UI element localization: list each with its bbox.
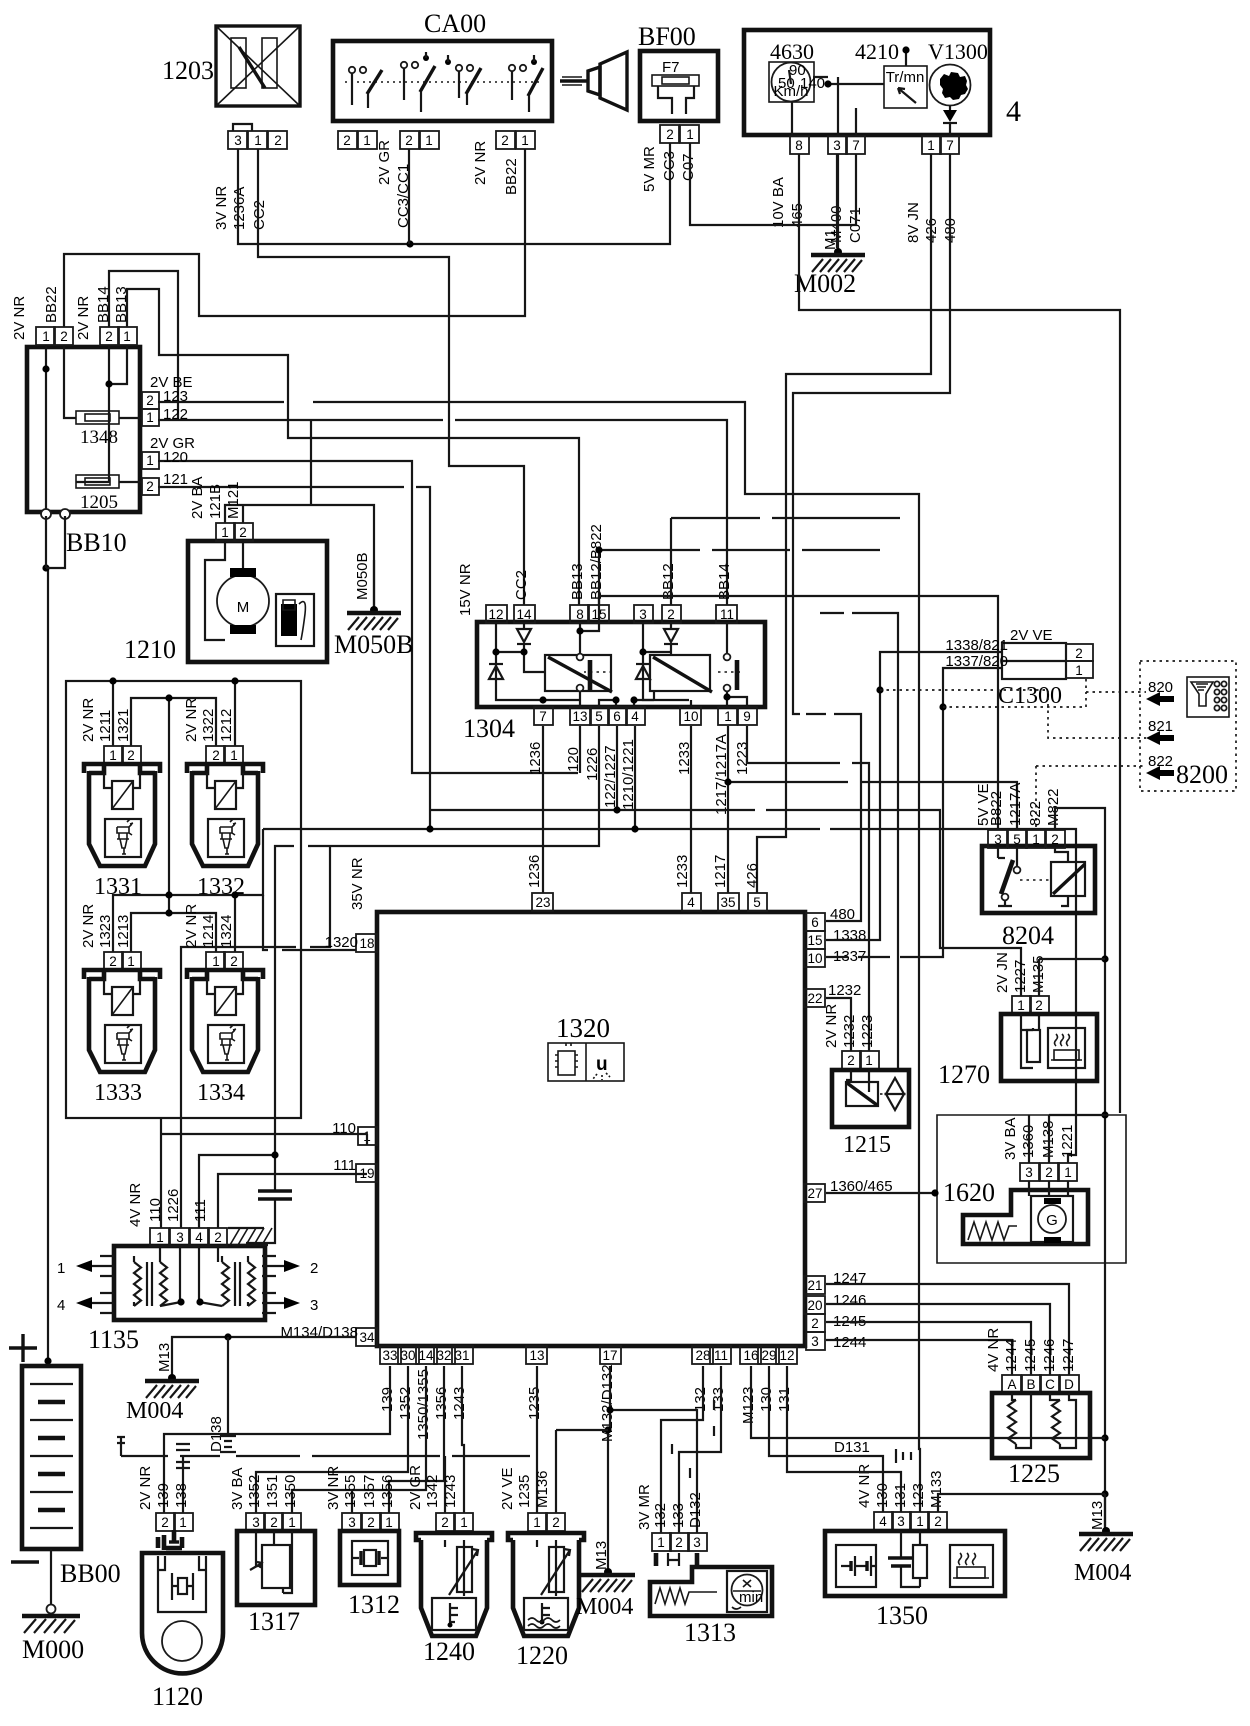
svg-text:2V NR: 2V NR (11, 296, 28, 340)
svg-text:M000: M000 (22, 1635, 84, 1664)
svg-text:12: 12 (779, 1348, 794, 1363)
svg-text:13: 13 (529, 1348, 544, 1363)
coolant temp sensor 1220 (499, 1467, 584, 1670)
speedometer 4630 (769, 39, 825, 102)
svg-text:2: 2 (666, 127, 674, 142)
svg-text:12: 12 (488, 607, 503, 622)
idle speed actuator 1313 (636, 1484, 772, 1647)
fuse box BF00 with fuse F7 (638, 22, 718, 192)
svg-text:M004: M004 (576, 1594, 633, 1620)
wire 120 from BB10 to 1304 pin 13 (158, 461, 578, 773)
svg-text:3: 3 (897, 1514, 905, 1529)
wire 1350/1355: ECU pin14 to 1317/1312 (292, 1366, 426, 1513)
svg-text:1317: 1317 (248, 1607, 300, 1636)
svg-text:1323: 1323 (97, 915, 114, 948)
svg-text:1: 1 (724, 709, 732, 724)
wire 1235: ECU pin13 to 1220 pin 1 (536, 1366, 538, 1513)
svg-text:111: 111 (192, 1199, 209, 1222)
svg-text:BF00: BF00 (638, 22, 696, 51)
svg-text:4V NR: 4V NR (856, 1464, 873, 1508)
svg-text:1: 1 (385, 1515, 393, 1530)
svg-text:1236: 1236 (527, 742, 544, 775)
fuse box BB10 (27, 347, 140, 557)
svg-text:B822: B822 (988, 791, 1005, 826)
dashed wires BB12 nets (595, 518, 900, 623)
ground M000 (22, 1549, 84, 1664)
8200 arrows 820 821 822 (1146, 679, 1174, 780)
svg-text:3: 3 (252, 1515, 260, 1530)
svg-text:16: 16 (743, 1348, 758, 1363)
connectors of CA00 (338, 131, 535, 149)
wire 122/1227 run (430, 726, 1021, 996)
svg-text:1220: 1220 (516, 1641, 568, 1670)
labels 15V NR / CC2 / BB13 / BB12-B822 / BB12 / BB14 (457, 524, 733, 616)
1620 actuator with G motor (963, 1181, 1088, 1244)
injector 1333 (80, 904, 160, 1106)
svg-text:1: 1 (156, 1230, 164, 1245)
svg-text:2V NR: 2V NR (80, 698, 97, 742)
svg-text:23: 23 (535, 895, 550, 910)
svg-text:C07: C07 (680, 153, 697, 181)
svg-text:CC2: CC2 (251, 200, 268, 230)
connector C1300 (945, 627, 1093, 709)
ECU right pins 6 15 10 22 27 21 20 2 3 (804, 906, 893, 1351)
svg-text:3: 3 (1025, 1165, 1033, 1180)
svg-text:8204: 8204 (1002, 921, 1054, 950)
svg-text:M13: M13 (1089, 1501, 1106, 1530)
svg-text:2: 2 (405, 133, 413, 148)
wire 1236: 1304 pin7 to ECU pin 23 (526, 726, 543, 893)
svg-text:M13: M13 (156, 1343, 173, 1372)
svg-text:M134/D138: M134/D138 (280, 1324, 358, 1341)
ground M002 with M1 wire (794, 154, 865, 298)
svg-text:1217: 1217 (712, 855, 729, 888)
svg-text:1: 1 (109, 748, 117, 763)
svg-text:7: 7 (946, 138, 954, 153)
svg-text:1236A: 1236A (231, 187, 248, 230)
engine warning lamp V1300 with diode (928, 39, 988, 136)
svg-text:2V VE: 2V VE (1010, 627, 1053, 644)
svg-text:1342: 1342 (424, 1475, 441, 1508)
svg-text:1350: 1350 (282, 1475, 299, 1508)
svg-text:1: 1 (1017, 998, 1025, 1013)
svg-text:1: 1 (42, 329, 50, 344)
svg-text:BB12/B822: BB12/B822 (588, 524, 605, 600)
svg-text:1213: 1213 (115, 915, 132, 948)
svg-text:3V NR: 3V NR (325, 1466, 342, 1510)
svg-text:1212: 1212 (218, 709, 235, 742)
crank sensor 1120 (137, 1466, 223, 1711)
svg-text:2: 2 (109, 954, 117, 969)
fuse 1348 (76, 411, 119, 448)
svg-text:1313: 1313 (684, 1618, 736, 1647)
wire 121B branch to fuel pump 1210 (225, 420, 374, 610)
svg-text:480: 480 (830, 906, 855, 923)
svg-text:1357: 1357 (361, 1475, 378, 1508)
svg-text:28: 28 (695, 1348, 710, 1363)
svg-text:M13: M13 (593, 1541, 610, 1570)
wire 111: 1135 pin 2 to ECU pin 19 (218, 1174, 367, 1228)
svg-text:10V BA: 10V BA (770, 177, 787, 228)
svg-text:1352: 1352 (246, 1475, 263, 1508)
wire 1337: ECU pin10 to C1300 pin 1 (826, 668, 1002, 957)
svg-text:1246: 1246 (1041, 1339, 1058, 1372)
ground M050B (334, 552, 413, 659)
svg-text:2: 2 (811, 1316, 819, 1331)
svg-text:130: 130 (758, 1387, 775, 1412)
svg-text:4: 4 (1006, 95, 1021, 128)
svg-text:1135: 1135 (88, 1325, 139, 1354)
connector of 1203, pins 3 1 2 (228, 124, 287, 149)
wire labels 10V BA 465 / M400 / C071 / 8V JN 426 / 480 (770, 177, 959, 243)
svg-text:8: 8 (576, 607, 584, 622)
1620 connector and labels (1002, 1115, 1105, 1181)
wire 480: cluster pin7 to ECU pin 6 (793, 154, 950, 1070)
wire BB14/122 run to 1304 pin 11 (109, 271, 727, 605)
svg-text:1: 1 (927, 138, 935, 153)
svg-text:B: B (1026, 1377, 1035, 1392)
svg-text:123: 123 (163, 388, 188, 405)
svg-text:BB13: BB13 (113, 286, 130, 323)
diagnostic plug icon (1187, 677, 1229, 717)
svg-text:1: 1 (1032, 832, 1040, 847)
wire labels 2V GR / CC3-CC1 / 2V NR / BB22 (376, 140, 520, 228)
wire labels 3V NR / 1236A / CC2 (213, 186, 268, 230)
svg-text:2: 2 (146, 393, 154, 408)
svg-text:D132: D132 (687, 1492, 704, 1528)
svg-text:A: A (1007, 1377, 1016, 1392)
svg-text:1: 1 (533, 1515, 541, 1530)
svg-text:2V JN: 2V JN (994, 952, 1011, 993)
svg-text:3V BA: 3V BA (1002, 1117, 1019, 1160)
svg-text:1320: 1320 (325, 934, 358, 951)
wire 123 from BB10 to 1350 pin 1 (158, 402, 920, 1512)
injector 1331 (80, 698, 160, 900)
svg-text:BB22: BB22 (503, 158, 520, 195)
svg-text:CC2: CC2 (513, 570, 530, 600)
svg-text:M136: M136 (534, 1470, 551, 1508)
svg-text:2: 2 (1075, 646, 1083, 661)
svg-text:132: 132 (652, 1503, 669, 1528)
svg-text:Tr/mn: Tr/mn (886, 69, 925, 86)
svg-text:3: 3 (833, 138, 841, 153)
svg-text:M050B: M050B (334, 630, 413, 659)
wire 426: cluster pin1 to ECU pin 5 (757, 154, 931, 893)
svg-text:BB14: BB14 (716, 563, 733, 600)
wire B822: 1304 pin15 to 8204 pin 3 (599, 596, 998, 830)
battery BB00 (9, 516, 121, 1588)
svg-text:3: 3 (348, 1515, 356, 1530)
svg-text:1244: 1244 (1003, 1339, 1020, 1372)
svg-text:C1300: C1300 (998, 683, 1062, 709)
svg-text:1217A: 1217A (1007, 783, 1024, 826)
svg-text:1: 1 (146, 453, 154, 468)
svg-text:3: 3 (994, 832, 1002, 847)
svg-text:4630: 4630 (770, 39, 814, 64)
svg-text:132: 132 (692, 1387, 709, 1412)
svg-text:2: 2 (274, 133, 282, 148)
svg-text:u: u (596, 1054, 608, 1075)
svg-text:1243: 1243 (442, 1475, 459, 1508)
svg-text:V1300: V1300 (928, 39, 988, 64)
svg-text:1270: 1270 (938, 1060, 990, 1089)
svg-text:11: 11 (720, 607, 734, 622)
svg-text:3V BA: 3V BA (229, 1467, 246, 1510)
diagnostic connector 8200 dashed box (1140, 661, 1236, 791)
throttle potentiometer 1317 (229, 1467, 315, 1636)
ignition module 1135 (88, 1183, 272, 1354)
wire CC3/CC1 from CA00 to junction (408, 149, 410, 244)
svg-text:2V NR: 2V NR (137, 1466, 154, 1510)
svg-text:3: 3 (639, 607, 647, 622)
svg-text:1236: 1236 (526, 855, 543, 888)
double relay 1304 (463, 622, 765, 743)
svg-text:1223: 1223 (859, 1015, 876, 1048)
svg-text:M123: M123 (740, 1386, 757, 1424)
svg-text:821: 821 (1148, 718, 1173, 735)
svg-text:2V GR: 2V GR (376, 140, 393, 185)
svg-text:1: 1 (460, 1515, 468, 1530)
svg-text:1: 1 (425, 133, 433, 148)
component 1203 (crossed-out switch) (162, 26, 300, 106)
wire 1233: 1304 pin10 to ECU pin 4 (674, 726, 691, 893)
1304 top pins 12 14 8 15 3 2 11 (486, 605, 737, 623)
svg-text:M004: M004 (1074, 1560, 1131, 1586)
svg-text:1: 1 (1064, 1165, 1072, 1180)
svg-text:1337/820: 1337/820 (945, 653, 1008, 670)
svg-text:1: 1 (686, 127, 694, 142)
svg-text:F7: F7 (662, 59, 680, 76)
svg-text:2: 2 (552, 1515, 560, 1530)
svg-text:123: 123 (910, 1483, 927, 1508)
wire 1356: ECU pin32 to 1312 pin 1 (389, 1366, 444, 1513)
svg-text:1: 1 (916, 1514, 924, 1529)
svg-text:33: 33 (382, 1348, 397, 1363)
svg-text:17: 17 (602, 1348, 617, 1363)
svg-text:4: 4 (631, 709, 639, 724)
wire M133: 1350 pin2 to ground bus (938, 1494, 1105, 1512)
svg-text:4V NR: 4V NR (127, 1183, 144, 1227)
svg-text:1214: 1214 (200, 915, 217, 948)
svg-text:4: 4 (687, 895, 695, 910)
tachometer 4210 Tr/mn (855, 39, 927, 108)
svg-text:1356: 1356 (379, 1475, 396, 1508)
svg-text:2: 2 (675, 1535, 683, 1550)
svg-text:2: 2 (367, 1515, 375, 1530)
svg-text:22: 22 (807, 991, 822, 1006)
svg-text:34: 34 (359, 1330, 375, 1345)
svg-text:1226: 1226 (165, 1189, 182, 1222)
svg-text:BB13: BB13 (569, 563, 586, 600)
svg-text:27: 27 (807, 1186, 822, 1201)
svg-text:10: 10 (683, 709, 698, 724)
svg-text:133: 133 (670, 1503, 687, 1528)
svg-text:1304: 1304 (463, 714, 515, 743)
wire 1342 to 1240 pin 2 (444, 1456, 446, 1513)
capacitor module 1312 (325, 1466, 400, 1619)
svg-text:2: 2 (270, 1515, 278, 1530)
svg-text:1: 1 (230, 748, 238, 763)
junction dots on M13 bus (1101, 955, 1108, 1497)
svg-text:1338: 1338 (833, 927, 866, 944)
svg-text:D131: D131 (834, 1439, 870, 1456)
svg-text:15V NR: 15V NR (457, 563, 474, 616)
heated resistor 1270 (938, 952, 1105, 1089)
svg-text:2V NR: 2V NR (75, 296, 92, 340)
svg-text:1: 1 (212, 954, 220, 969)
svg-text:5: 5 (753, 895, 761, 910)
svg-text:2: 2 (1051, 832, 1059, 847)
svg-text:M002: M002 (794, 269, 856, 298)
wire M123 from ECU pin 16 (751, 1366, 1105, 1438)
svg-text:1246: 1246 (833, 1292, 866, 1309)
labels 1236 120 1226 122/1227 1210/1221 1233 1217/1217A 1223 (527, 734, 751, 815)
svg-text:BB12: BB12 (660, 563, 677, 600)
relay 8204 (975, 783, 1095, 950)
svg-text:426: 426 (744, 863, 761, 888)
injector 1332 (183, 698, 263, 900)
svg-text:122: 122 (163, 406, 188, 423)
wire D138 branch (208, 1337, 236, 1452)
wire 1320 to ECU pin 18 (263, 895, 356, 950)
svg-text:1: 1 (288, 1515, 296, 1530)
svg-text:2: 2 (127, 748, 135, 763)
svg-text:1: 1 (363, 133, 371, 148)
wire 131 from ECU pin 12 to 1350 pin 3 (787, 1366, 901, 1512)
svg-text:2: 2 (161, 1515, 169, 1530)
svg-text:CA00: CA00 (424, 9, 486, 38)
svg-text:1324: 1324 (218, 915, 235, 948)
wire 1210/1221 run (263, 726, 1076, 1163)
svg-text:2V NR: 2V NR (472, 141, 489, 185)
svg-text:M133: M133 (928, 1470, 945, 1508)
wire BB22: CA00 to BB10 (64, 149, 525, 327)
svg-text:1355: 1355 (342, 1475, 359, 1508)
svg-text:1: 1 (179, 1515, 187, 1530)
svg-text:4: 4 (879, 1514, 887, 1529)
wire BB13 staircase to 1304 pin 8 (127, 289, 579, 605)
svg-text:2: 2 (214, 1230, 222, 1245)
svg-text:3: 3 (176, 1230, 184, 1245)
svg-text:2: 2 (1035, 998, 1043, 1013)
svg-text:2: 2 (212, 748, 220, 763)
svg-text:1: 1 (1075, 663, 1083, 678)
svg-text:35: 35 (720, 895, 735, 910)
svg-text:2V BA: 2V BA (189, 476, 206, 519)
svg-text:1338/821: 1338/821 (945, 637, 1008, 654)
svg-text:1: 1 (657, 1535, 665, 1550)
ignition key icon (560, 52, 627, 110)
svg-text:3: 3 (310, 1297, 318, 1314)
svg-text:8: 8 (795, 138, 803, 153)
svg-text:BB10: BB10 (66, 528, 127, 557)
svg-text:2V NR: 2V NR (80, 904, 97, 948)
svg-text:20: 20 (807, 1298, 822, 1313)
svg-text:4: 4 (195, 1230, 203, 1245)
svg-text:2V NR: 2V NR (183, 698, 200, 742)
svg-text:139: 139 (155, 1483, 172, 1508)
svg-text:2: 2 (310, 1260, 318, 1277)
svg-text:1: 1 (123, 329, 131, 344)
wire 1226: 1304 pin5 to capacitor and 1135 pin 3 (181, 726, 599, 1228)
capacitor branch of 1135 (199, 1151, 292, 1243)
svg-text:2: 2 (60, 329, 68, 344)
ECU bottom wire labels (379, 1364, 793, 1442)
ground M004 right (1074, 1494, 1133, 1586)
svg-text:BB22: BB22 (43, 286, 60, 323)
svg-text:15: 15 (807, 933, 822, 948)
svg-text:2: 2 (847, 1053, 855, 1068)
svg-text:3: 3 (234, 133, 242, 148)
svg-text:2: 2 (667, 607, 675, 622)
solenoid valve 1215 (823, 998, 909, 1158)
ground M004 left (126, 1343, 199, 1424)
1304 bottom pins 7 13 5 6 4 10 1 9 (534, 707, 757, 725)
svg-text:1233: 1233 (674, 855, 691, 888)
svg-text:1205: 1205 (80, 492, 118, 513)
svg-text:5: 5 (595, 709, 603, 724)
svg-text:1245: 1245 (1022, 1339, 1039, 1372)
svg-text:M121: M121 (225, 481, 242, 519)
wire C07-C071: BF00 pin1 to cluster pin7 (690, 143, 856, 225)
svg-text:1: 1 (146, 410, 154, 425)
svg-text:822: 822 (1148, 753, 1173, 770)
label D131 and breaks (834, 1439, 911, 1463)
fuel pump 1210 (124, 476, 327, 664)
svg-text:M: M (237, 599, 250, 616)
injector 1334 (183, 904, 263, 1106)
svg-text:3V NR: 3V NR (213, 186, 230, 230)
svg-text:2: 2 (343, 133, 351, 148)
svg-text:1232: 1232 (841, 1015, 858, 1048)
svg-text:1333: 1333 (94, 1080, 142, 1106)
svg-text:min: min (739, 1589, 763, 1606)
svg-text:1235: 1235 (526, 1387, 543, 1420)
svg-text:G: G (1046, 1212, 1058, 1229)
idle control actuator 1620 box (937, 1115, 1126, 1263)
dashed run D-line at y 1456 (117, 1437, 530, 1456)
cluster pins 8 3 7 1 7 (790, 136, 959, 154)
BB10 internal wiring (42, 345, 142, 509)
svg-text:D: D (1064, 1377, 1074, 1392)
svg-text:8V JN: 8V JN (905, 202, 922, 243)
svg-text:2: 2 (1045, 1165, 1053, 1180)
svg-text:7: 7 (539, 709, 547, 724)
svg-text:1331: 1331 (94, 874, 142, 900)
wire 465: cluster pin8 down right side (799, 154, 1120, 1113)
svg-text:1223: 1223 (734, 742, 751, 775)
svg-text:1225: 1225 (1008, 1459, 1060, 1488)
wire M822: 8204 pin2 to ground bus (1055, 808, 1105, 1528)
svg-text:1322: 1322 (200, 709, 217, 742)
svg-text:32: 32 (436, 1348, 451, 1363)
connectors of BB10: BB22 and BB14/BB13 (11, 286, 137, 345)
wire 139: ECU pin33 to sensor 1120 (164, 1366, 390, 1513)
wire 130 from ECU pin 29 to 1350 pin 4 (769, 1366, 883, 1512)
wire 1243: ECU pin31 to 1240 pin 1 (462, 1366, 464, 1513)
svg-text:1312: 1312 (348, 1590, 400, 1619)
svg-text:2: 2 (230, 954, 238, 969)
svg-text:1243: 1243 (451, 1387, 468, 1420)
svg-text:1: 1 (221, 525, 229, 540)
engine control unit 1320 (377, 912, 805, 1346)
svg-text:3: 3 (811, 1334, 819, 1349)
svg-text:1247: 1247 (1060, 1339, 1077, 1372)
svg-text:1351: 1351 (264, 1475, 281, 1508)
enclosing box around injectors (66, 681, 301, 1118)
svg-text:7: 7 (852, 138, 860, 153)
svg-text:1332: 1332 (197, 874, 245, 900)
